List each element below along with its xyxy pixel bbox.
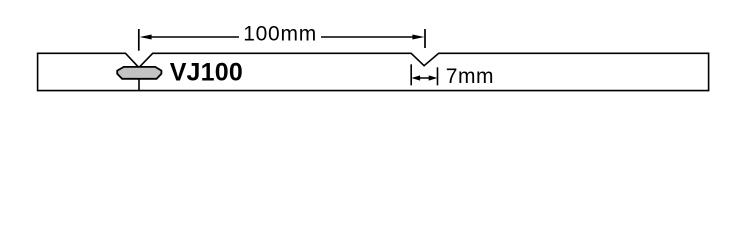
svg-text:100mm: 100mm [243,22,317,45]
dimension 100mm: value text [243,22,317,45]
dimension 7mm: value text [446,65,494,88]
dimension 7mm: right extension line [437,67,439,85]
svg-text:7mm: 7mm [446,65,494,88]
dimension 7mm: right arrowhead [429,75,438,80]
test block bar with two V-notches [38,53,709,90]
weld seam marker (grey hexagon) [117,67,161,79]
centre line below marker [138,79,140,91]
dimension 100mm: left extension line [138,29,140,51]
dimension 7mm: dimension line [417,77,432,79]
dimension 100mm: left arrowhead [140,35,152,40]
dimension 7mm: left extension line [410,64,412,85]
dimension 100mm: dimension line segments [150,36,414,38]
label VJ100 [170,59,243,87]
dimension 100mm: right arrowhead [412,35,424,40]
svg-text:VJ100: VJ100 [170,59,243,87]
dimension 100mm: right extension line [424,29,426,48]
dimension 7mm: left arrowhead [411,75,420,80]
